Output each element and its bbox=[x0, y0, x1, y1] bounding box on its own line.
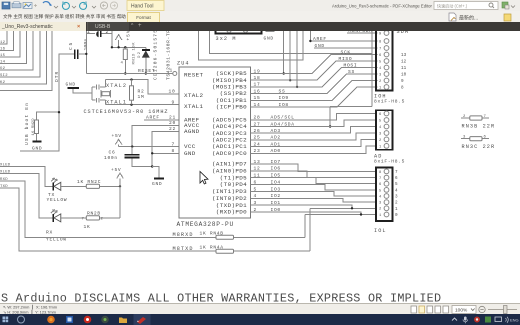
svg-text:IO8: IO8 bbox=[279, 102, 289, 108]
IC ZU4 ATMEGA328P-PU bbox=[177, 61, 251, 229]
wire IO0 net bbox=[251, 207, 377, 238]
wire bus from USB section top-left (MISO2/SCK2 etc) bbox=[0, 26, 52, 91]
svg-text:AD3: AD3 bbox=[271, 128, 281, 134]
svg-text:SS: SS bbox=[279, 88, 286, 94]
svg-text:5: 5 bbox=[379, 60, 382, 64]
svg-text:8: 8 bbox=[172, 148, 175, 154]
wire VCC net (pin 7) bbox=[119, 141, 179, 148]
svg-text:AD0: AD0 bbox=[271, 148, 281, 154]
svg-text:1: 1 bbox=[170, 68, 173, 74]
svg-text:SCK: SCK bbox=[341, 50, 351, 56]
svg-text:6: 6 bbox=[379, 183, 382, 187]
svg-text:22: 22 bbox=[169, 126, 176, 132]
svg-text:XLED: XLED bbox=[0, 163, 11, 167]
resistor RN2D 1K bbox=[32, 118, 39, 141]
svg-text:26: 26 bbox=[254, 128, 261, 134]
svg-text:13: 13 bbox=[254, 159, 261, 165]
wire IO1 net bbox=[251, 200, 377, 251]
ground (ICSP) bbox=[264, 26, 275, 42]
svg-text:GND: GND bbox=[152, 181, 162, 187]
disclaimer text bbox=[1, 292, 441, 306]
resistor RN3B 22R bbox=[461, 115, 495, 130]
svg-text:2: 2 bbox=[106, 31, 109, 35]
wire XTAL1 net bbox=[105, 99, 179, 106]
svg-text:C5: C5 bbox=[68, 42, 74, 50]
svg-text:RX: RX bbox=[46, 230, 53, 236]
wire MOSI net bbox=[251, 63, 378, 88]
svg-text:4: 4 bbox=[121, 62, 124, 66]
svg-text:AGND: AGND bbox=[184, 128, 200, 135]
svg-text:14: 14 bbox=[254, 102, 261, 108]
svg-text:21: 21 bbox=[169, 114, 176, 120]
svg-text:GND: GND bbox=[66, 82, 76, 88]
wire SS net bbox=[251, 69, 378, 94]
svg-text:C6: C6 bbox=[109, 149, 116, 155]
svg-text:3: 3 bbox=[379, 73, 382, 77]
wire TXLED net bbox=[0, 163, 53, 186]
svg-text:Hand Tool: Hand Tool bbox=[131, 4, 153, 10]
wire M8TXD net bbox=[0, 185, 310, 252]
svg-text:XLED: XLED bbox=[0, 170, 11, 174]
node USB boot En bbox=[24, 103, 30, 145]
+5V power symbol (LED rail) bbox=[111, 167, 123, 218]
svg-text:25: 25 bbox=[254, 135, 261, 141]
svg-text:11: 11 bbox=[254, 173, 261, 179]
svg-text:ZU4: ZU4 bbox=[177, 61, 190, 67]
svg-text:S Arduino DISCLAIMS ALL OTHER: S Arduino DISCLAIMS ALL OTHER WARRANTIES… bbox=[1, 292, 441, 303]
svg-text:IO6: IO6 bbox=[271, 166, 281, 172]
wire IO3 net bbox=[251, 186, 377, 196]
svg-text:8: 8 bbox=[379, 171, 382, 175]
svg-text:O2: O2 bbox=[0, 67, 6, 71]
svg-text:GND: GND bbox=[264, 36, 274, 42]
svg-text:2: 2 bbox=[254, 207, 257, 213]
wire IO5 net bbox=[251, 173, 377, 184]
svg-text:K2: K2 bbox=[0, 81, 6, 85]
wire ICSP reset jog bbox=[198, 26, 303, 60]
svg-text:ENG: ENG bbox=[510, 317, 519, 322]
svg-text:15: 15 bbox=[0, 54, 6, 58]
svg-text:7: 7 bbox=[379, 177, 381, 181]
svg-text:5: 5 bbox=[395, 182, 398, 187]
svg-text:4: 4 bbox=[379, 67, 382, 71]
wire AD3 net bbox=[251, 127, 377, 135]
svg-text:IO2: IO2 bbox=[271, 193, 281, 199]
svg-text:16: 16 bbox=[254, 88, 261, 94]
svg-text:6: 6 bbox=[379, 113, 382, 117]
svg-text:12: 12 bbox=[0, 41, 6, 45]
svg-text:+5V: +5V bbox=[112, 133, 122, 139]
svg-text:9: 9 bbox=[172, 99, 175, 105]
svg-text:D2: D2 bbox=[138, 51, 142, 58]
ground (IC GND) bbox=[152, 167, 164, 188]
resonator Q1 CSTCE16M0V53-R0 bbox=[92, 80, 110, 105]
svg-text:4: 4 bbox=[395, 188, 398, 193]
svg-text:7: 7 bbox=[379, 47, 381, 51]
svg-text:1: 1 bbox=[379, 145, 382, 149]
svg-text:IO9: IO9 bbox=[279, 95, 289, 101]
svg-text:28: 28 bbox=[254, 115, 261, 121]
svg-text:24: 24 bbox=[254, 141, 261, 147]
wire IO4 net bbox=[251, 179, 377, 190]
resistor RN1D 10K (reset pull-up) bbox=[121, 42, 137, 75]
wire GND header net bbox=[314, 43, 378, 49]
svg-text:2: 2 bbox=[379, 80, 382, 84]
svg-text:DTR: DTR bbox=[54, 71, 60, 82]
svg-text:6: 6 bbox=[395, 176, 398, 181]
svg-text:最新的...: 最新的... bbox=[459, 15, 478, 22]
wire RESET net to pin 1 bbox=[86, 68, 177, 76]
svg-text:USB boot En: USB boot En bbox=[24, 103, 30, 145]
svg-text:3: 3 bbox=[379, 202, 382, 206]
LED RX YELLOW bbox=[46, 210, 86, 243]
resistor RN3C 22R bbox=[461, 136, 495, 151]
svg-text:100n: 100n bbox=[104, 155, 118, 161]
svg-text:TXD: TXD bbox=[0, 185, 8, 189]
+5V power symbol (reset pull-up rail) bbox=[115, 30, 131, 47]
svg-text:M8RXD: M8RXD bbox=[173, 232, 194, 238]
svg-text:GND: GND bbox=[184, 150, 196, 157]
node labels 13-8 (digital pins) bbox=[401, 53, 407, 91]
svg-text:GND: GND bbox=[32, 146, 42, 152]
wire AD4/SDA net (PC4) bbox=[251, 120, 377, 127]
ground (crystal) bbox=[66, 82, 93, 93]
svg-text:7: 7 bbox=[395, 170, 398, 175]
svg-text:2: 2 bbox=[379, 139, 382, 143]
svg-text:2: 2 bbox=[379, 208, 382, 212]
svg-text:3: 3 bbox=[463, 136, 466, 140]
svg-text:5: 5 bbox=[379, 119, 382, 123]
svg-text:AD1: AD1 bbox=[271, 141, 281, 147]
resistor R2 1M bbox=[130, 80, 145, 105]
svg-text:RXD: RXD bbox=[0, 178, 8, 182]
svg-text:5: 5 bbox=[254, 186, 257, 192]
svg-text:RESET: RESET bbox=[184, 72, 204, 79]
svg-text:8x1F-H8.5: 8x1F-H8.5 bbox=[374, 158, 405, 164]
svg-text:+5V: +5V bbox=[111, 167, 121, 173]
svg-text:1K RN4A: 1K RN4A bbox=[200, 245, 224, 251]
svg-text:(RXD)PD0: (RXD)PD0 bbox=[216, 209, 247, 216]
svg-text:1: 1 bbox=[379, 214, 382, 218]
svg-text:AREF: AREF bbox=[313, 36, 327, 42]
wire GND net (pin 8) bbox=[151, 148, 179, 155]
svg-text:9: 9 bbox=[379, 32, 382, 36]
svg-text:MISO: MISO bbox=[339, 56, 353, 62]
svg-text:SDA: SDA bbox=[397, 31, 410, 35]
svg-text:6: 6 bbox=[254, 179, 257, 185]
svg-text:XTAL2: XTAL2 bbox=[184, 92, 204, 99]
svg-text:23: 23 bbox=[254, 148, 261, 154]
wire XTAL2 net bbox=[105, 78, 179, 94]
+5V power symbol (VCC) bbox=[112, 133, 122, 146]
svg-text:2: 2 bbox=[463, 115, 466, 119]
wire ICSP MISO/SCK/MOSI taps bbox=[283, 26, 299, 88]
svg-text:GND: GND bbox=[315, 43, 325, 49]
svg-text:5: 5 bbox=[379, 189, 382, 193]
svg-text:(ICP)PB0: (ICP)PB0 bbox=[216, 104, 247, 111]
svg-text:XTAL1: XTAL1 bbox=[106, 100, 127, 106]
svg-text:18: 18 bbox=[254, 75, 261, 81]
wire AVCC net (pin 20) bbox=[132, 120, 179, 146]
connector IOL 8x1F-H8.5 bbox=[374, 168, 393, 235]
svg-text:IO5: IO5 bbox=[271, 173, 281, 179]
svg-text:IO3: IO3 bbox=[271, 186, 281, 192]
svg-text:ATMEGA328P-PU: ATMEGA328P-PU bbox=[177, 221, 234, 228]
junction on DTR at RN2D branch bbox=[58, 111, 60, 113]
capacitor C4 (polarized, pins 1-2) on reset line bbox=[85, 26, 112, 74]
svg-text:RN2B: RN2B bbox=[87, 211, 101, 217]
svg-text:AD5/SCL: AD5/SCL bbox=[271, 115, 295, 121]
wire DTR net bbox=[20, 54, 74, 151]
svg-text:8x1F-H8.5: 8x1F-H8.5 bbox=[374, 99, 405, 105]
value label CSTCE16M0V53-R0 16MHZ bbox=[84, 109, 168, 115]
svg-text:19: 19 bbox=[254, 68, 261, 74]
svg-text:3x2 M: 3x2 M bbox=[216, 36, 237, 42]
wire MISO net bbox=[251, 56, 378, 81]
svg-text:2: 2 bbox=[395, 201, 398, 206]
wire AD1 net bbox=[251, 139, 377, 147]
connector AD 8x1F-H8.5 bbox=[374, 110, 405, 164]
svg-text:快速启动 (Ctrl+.): 快速启动 (Ctrl+.) bbox=[437, 2, 468, 8]
svg-text:MOSI: MOSI bbox=[344, 63, 358, 69]
wire SCK net bbox=[251, 50, 378, 75]
wire IO9 net (PB1) bbox=[251, 81, 378, 102]
svg-text:7: 7 bbox=[172, 141, 175, 147]
svg-text:1: 1 bbox=[87, 31, 90, 35]
svg-text:3: 3 bbox=[379, 132, 382, 136]
svg-text:R2: R2 bbox=[138, 89, 145, 95]
wire AD4/SDA header net bbox=[329, 28, 378, 128]
svg-text:RESET: RESET bbox=[138, 68, 155, 74]
svg-text:IO0: IO0 bbox=[271, 207, 281, 213]
svg-text:0: 0 bbox=[395, 213, 398, 218]
part label TS42031-160R-TR-7260 bbox=[166, 30, 172, 80]
svg-text:2: 2 bbox=[101, 218, 104, 222]
wire AGND net (pin 22) bbox=[152, 126, 179, 166]
svg-text:16: 16 bbox=[0, 47, 6, 51]
svg-text:YELLOW: YELLOW bbox=[47, 197, 68, 203]
svg-text:7: 7 bbox=[82, 218, 85, 222]
svg-text:IOL: IOL bbox=[374, 228, 387, 234]
svg-text:6: 6 bbox=[379, 54, 382, 58]
svg-text:20: 20 bbox=[169, 120, 176, 126]
wire IO7 net bbox=[251, 159, 377, 172]
resistor RN2C 1K bbox=[77, 179, 121, 188]
svg-text:10: 10 bbox=[169, 89, 176, 95]
svg-text:1K: 1K bbox=[84, 224, 91, 230]
ground below RN2D bbox=[32, 142, 42, 152]
svg-text:27: 27 bbox=[254, 121, 261, 127]
capacitor C6 100n bbox=[104, 147, 153, 168]
diode D2 CD1206-S01575 bbox=[138, 47, 150, 74]
capacitor C5 100n bbox=[68, 38, 89, 59]
svg-text:AREF: AREF bbox=[146, 115, 160, 121]
svg-text:1K RN2D: 1K RN2D bbox=[32, 118, 36, 136]
connector IOH 8x1F-H8.5 bbox=[374, 27, 405, 105]
svg-text:7: 7 bbox=[484, 115, 487, 119]
svg-text:9: 9 bbox=[401, 79, 404, 84]
svg-text:8: 8 bbox=[379, 40, 382, 44]
svg-text:1M: 1M bbox=[138, 94, 145, 100]
svg-text:3: 3 bbox=[395, 195, 398, 200]
svg-text:4: 4 bbox=[379, 195, 382, 199]
connector ICSP 3x2 M bbox=[216, 27, 262, 43]
resistor RN4B 1K bbox=[200, 231, 234, 240]
svg-text:4: 4 bbox=[254, 193, 257, 199]
svg-text:6: 6 bbox=[484, 136, 487, 140]
svg-text:3: 3 bbox=[254, 200, 257, 206]
svg-text:AD4/SDA: AD4/SDA bbox=[271, 121, 295, 127]
svg-text:XTAL1: XTAL1 bbox=[184, 103, 204, 110]
wire IO2 net bbox=[251, 193, 377, 202]
mouse cursor bbox=[200, 172, 208, 185]
wire AD0 net bbox=[251, 146, 377, 154]
wire IO6 net bbox=[251, 166, 377, 178]
svg-text:14: 14 bbox=[0, 61, 6, 65]
svg-text:IO4: IO4 bbox=[271, 179, 281, 185]
svg-text:11: 11 bbox=[401, 66, 407, 71]
wire +5V rail bbox=[111, 46, 146, 48]
svg-text:SS: SS bbox=[348, 69, 355, 75]
resistor RN2B 1K bbox=[82, 211, 121, 231]
frame around ICSP subcircuit bbox=[210, 26, 372, 54]
svg-text:XTAL2: XTAL2 bbox=[106, 83, 127, 89]
svg-text:17: 17 bbox=[254, 82, 261, 88]
wire AD5/SCL net bbox=[251, 114, 377, 121]
svg-text:Arduino_Uno_Rev3-schematic - P: Arduino_Uno_Rev3-schematic - PDF-XChange… bbox=[332, 3, 432, 8]
svg-text:AD4/SDA: AD4/SDA bbox=[349, 31, 373, 34]
svg-text:13: 13 bbox=[401, 53, 407, 58]
svg-text:M8TXD: M8TXD bbox=[173, 246, 194, 252]
svg-text:8: 8 bbox=[401, 86, 404, 91]
svg-text:RN1D 10K: RN1D 10K bbox=[133, 42, 137, 65]
svg-text:12: 12 bbox=[254, 166, 261, 172]
svg-text:IO7: IO7 bbox=[271, 159, 281, 165]
svg-text:12: 12 bbox=[401, 60, 407, 65]
wire IO8 net (PB0) bbox=[251, 87, 378, 108]
svg-text:(ADC0)PC0: (ADC0)PC0 bbox=[212, 150, 247, 157]
svg-text:1K RN2C: 1K RN2C bbox=[77, 179, 101, 185]
svg-text:1K RN4B: 1K RN4B bbox=[200, 231, 224, 237]
svg-text:SI2: SI2 bbox=[0, 74, 8, 78]
node labels 7-0 (digital pins) bbox=[395, 170, 398, 218]
svg-text:IO1: IO1 bbox=[271, 200, 281, 206]
svg-text:10: 10 bbox=[401, 73, 407, 78]
svg-text:15: 15 bbox=[254, 95, 261, 101]
wire M8RXD net bbox=[0, 178, 305, 238]
wire AREF header net bbox=[309, 26, 377, 42]
svg-text:RN3B 22R: RN3B 22R bbox=[462, 124, 496, 130]
svg-text:+5V: +5V bbox=[127, 31, 132, 41]
node SDA bbox=[397, 29, 410, 35]
resistor RN4A 1K bbox=[200, 245, 234, 254]
wire AREF net bbox=[144, 114, 179, 120]
svg-text:CSTCE16M0V53-R0 16MHZ: CSTCE16M0V53-R0 16MHZ bbox=[84, 109, 168, 115]
part label CD1206-S01575 bbox=[153, 30, 159, 80]
svg-text:AD2: AD2 bbox=[271, 135, 281, 141]
svg-text:1: 1 bbox=[395, 207, 398, 212]
LED TX YELLOW bbox=[47, 178, 87, 203]
svg-text:RN3C 22R: RN3C 22R bbox=[462, 144, 496, 150]
wire RXLED net bbox=[0, 170, 53, 218]
wire AD2 net bbox=[251, 133, 377, 141]
svg-text:4: 4 bbox=[379, 126, 382, 130]
svg-text:100%: 100% bbox=[455, 308, 468, 314]
